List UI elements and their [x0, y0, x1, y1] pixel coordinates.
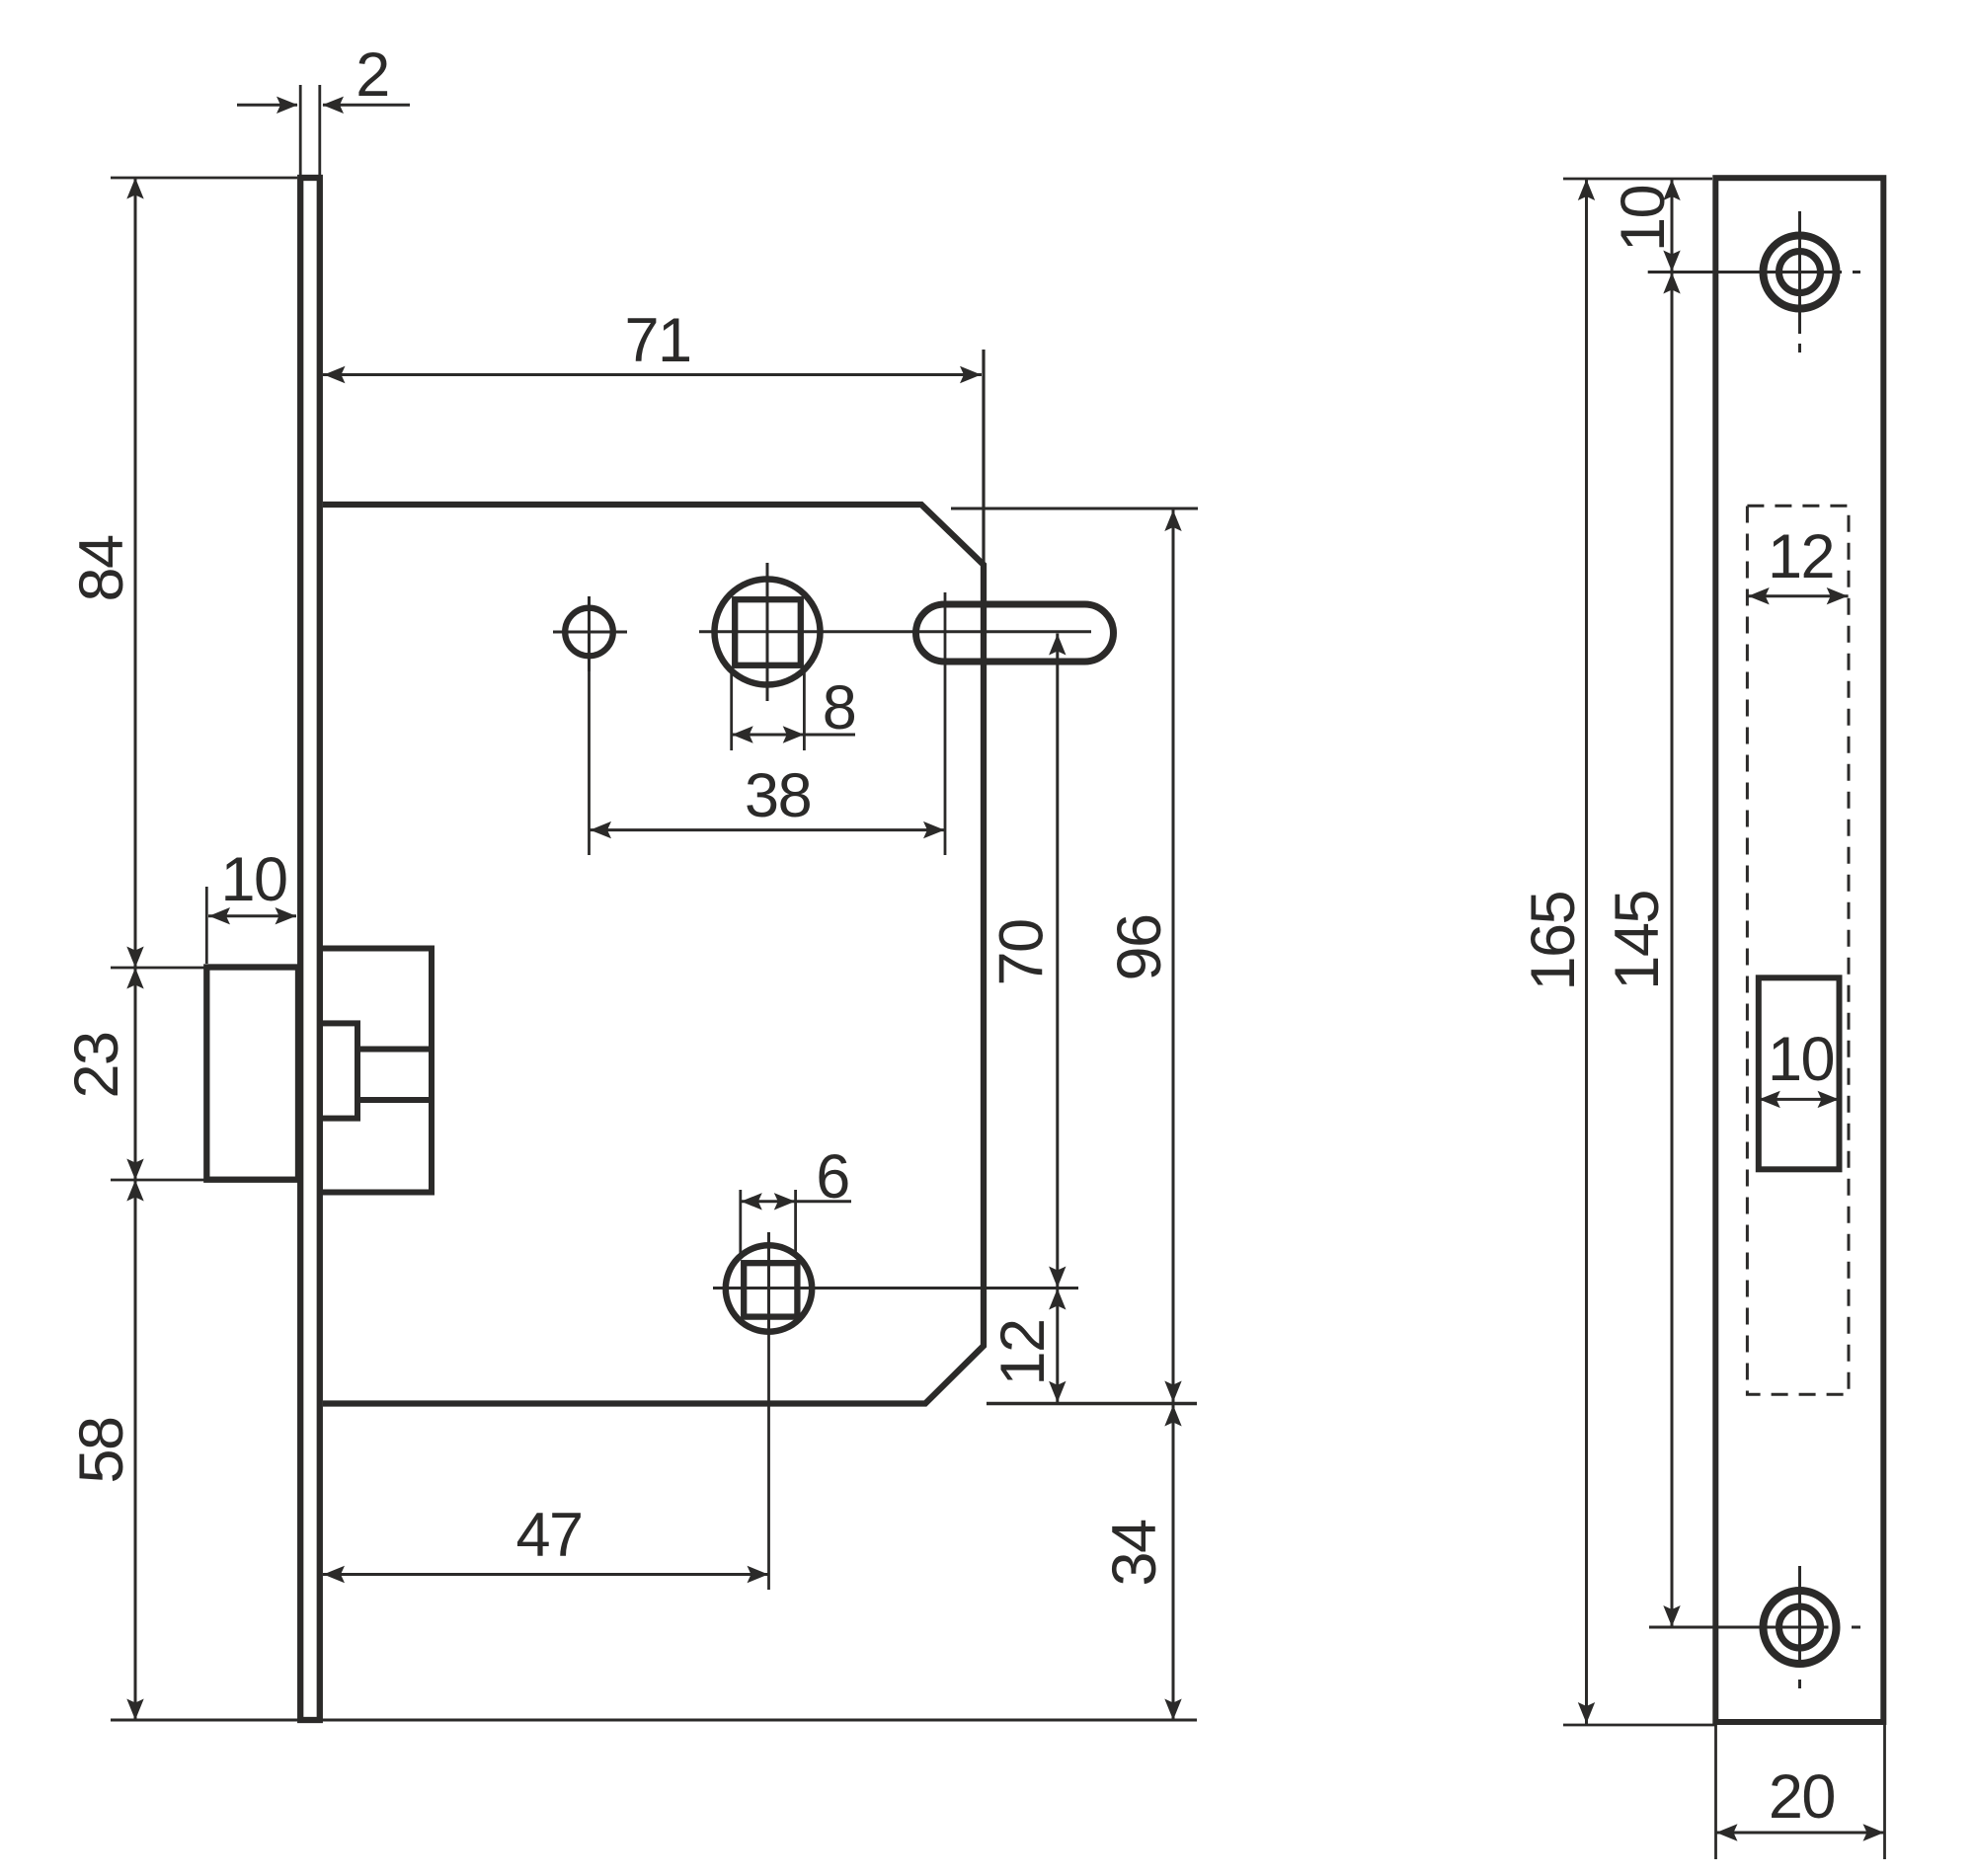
channel line lower	[357, 1097, 432, 1103]
dimension 8 (spindle square)	[732, 668, 856, 750]
dimension 84 (left chain)	[67, 178, 297, 968]
lower square hole (circle with square)	[713, 1232, 1078, 1335]
svg-text:8: 8	[823, 673, 856, 743]
svg-text:6: 6	[816, 1142, 849, 1212]
svg-text:12: 12	[1768, 522, 1834, 591]
svg-text:84: 84	[67, 535, 136, 602]
dimension 10 (latch width)	[206, 845, 296, 964]
bottom screw hole	[1764, 1566, 1861, 1688]
dimension 96 (body height)	[1105, 509, 1182, 1403]
svg-text:70: 70	[987, 919, 1057, 985]
dashed body projection rectangle	[1747, 506, 1849, 1394]
svg-text:145: 145	[1603, 891, 1672, 990]
handle screw hole (small circle)	[553, 596, 627, 671]
svg-text:23: 23	[62, 1032, 131, 1098]
dimension 71 (body depth)	[323, 306, 984, 565]
svg-text:10: 10	[1609, 186, 1678, 252]
latch bolt head	[206, 968, 298, 1180]
extension line top for 96	[951, 508, 1198, 510]
spindle hole (circle with square)	[699, 563, 1091, 701]
top screw hole	[1764, 211, 1861, 352]
dimension 165 (plate height)	[1519, 179, 1715, 1725]
dimension 38 (hole spacing)	[590, 592, 946, 855]
dimension 12 (lower hole to body bottom)	[988, 1289, 1066, 1402]
dimension 70 (oval to lower hole)	[987, 634, 1066, 1289]
svg-text:47: 47	[515, 1501, 582, 1570]
dimension 10 (top screw offset, right view)	[1563, 179, 1842, 273]
oval slot	[916, 604, 1114, 662]
dimension 10 (latch window width)	[1759, 1025, 1839, 1108]
svg-text:165: 165	[1519, 892, 1588, 991]
svg-text:58: 58	[67, 1417, 136, 1483]
svg-text:38: 38	[745, 761, 811, 830]
svg-text:20: 20	[1769, 1762, 1835, 1832]
svg-text:2: 2	[355, 40, 389, 110]
svg-text:34: 34	[1100, 1520, 1169, 1587]
svg-text:10: 10	[1768, 1025, 1834, 1094]
lock body outline with chamfered right corners	[323, 505, 984, 1404]
svg-text:12: 12	[988, 1319, 1058, 1385]
svg-text:96: 96	[1105, 914, 1174, 980]
dimension 47 (lower hole offset)	[323, 1335, 769, 1590]
bottom reference line	[111, 1719, 1197, 1722]
latch window rectangle	[1759, 977, 1840, 1169]
dimension 20 (plate width)	[1716, 1725, 1885, 1859]
channel line upper	[357, 1047, 432, 1053]
dimension 2 (faceplate thickness)	[237, 40, 410, 175]
extension line right of bottom chamfer	[987, 1402, 1197, 1405]
dimension 23 (latch height)	[62, 968, 206, 1180]
dimension 12 (dashed body width)	[1748, 522, 1849, 604]
latch tail block	[320, 1023, 357, 1118]
svg-text:71: 71	[624, 306, 690, 375]
svg-text:10: 10	[220, 845, 286, 914]
dimension 58 (bottom left)	[67, 1180, 144, 1720]
dimension 34 (body bottom to plate bottom)	[1100, 1404, 1182, 1720]
dimension 145 (screw spacing)	[1603, 273, 1829, 1628]
dimension 6 (lower square)	[741, 1142, 851, 1256]
faceplate front view (right)	[1715, 178, 1883, 1722]
faceplate side view (left)	[300, 178, 320, 1720]
follower housing rectangle inside body	[320, 949, 432, 1193]
